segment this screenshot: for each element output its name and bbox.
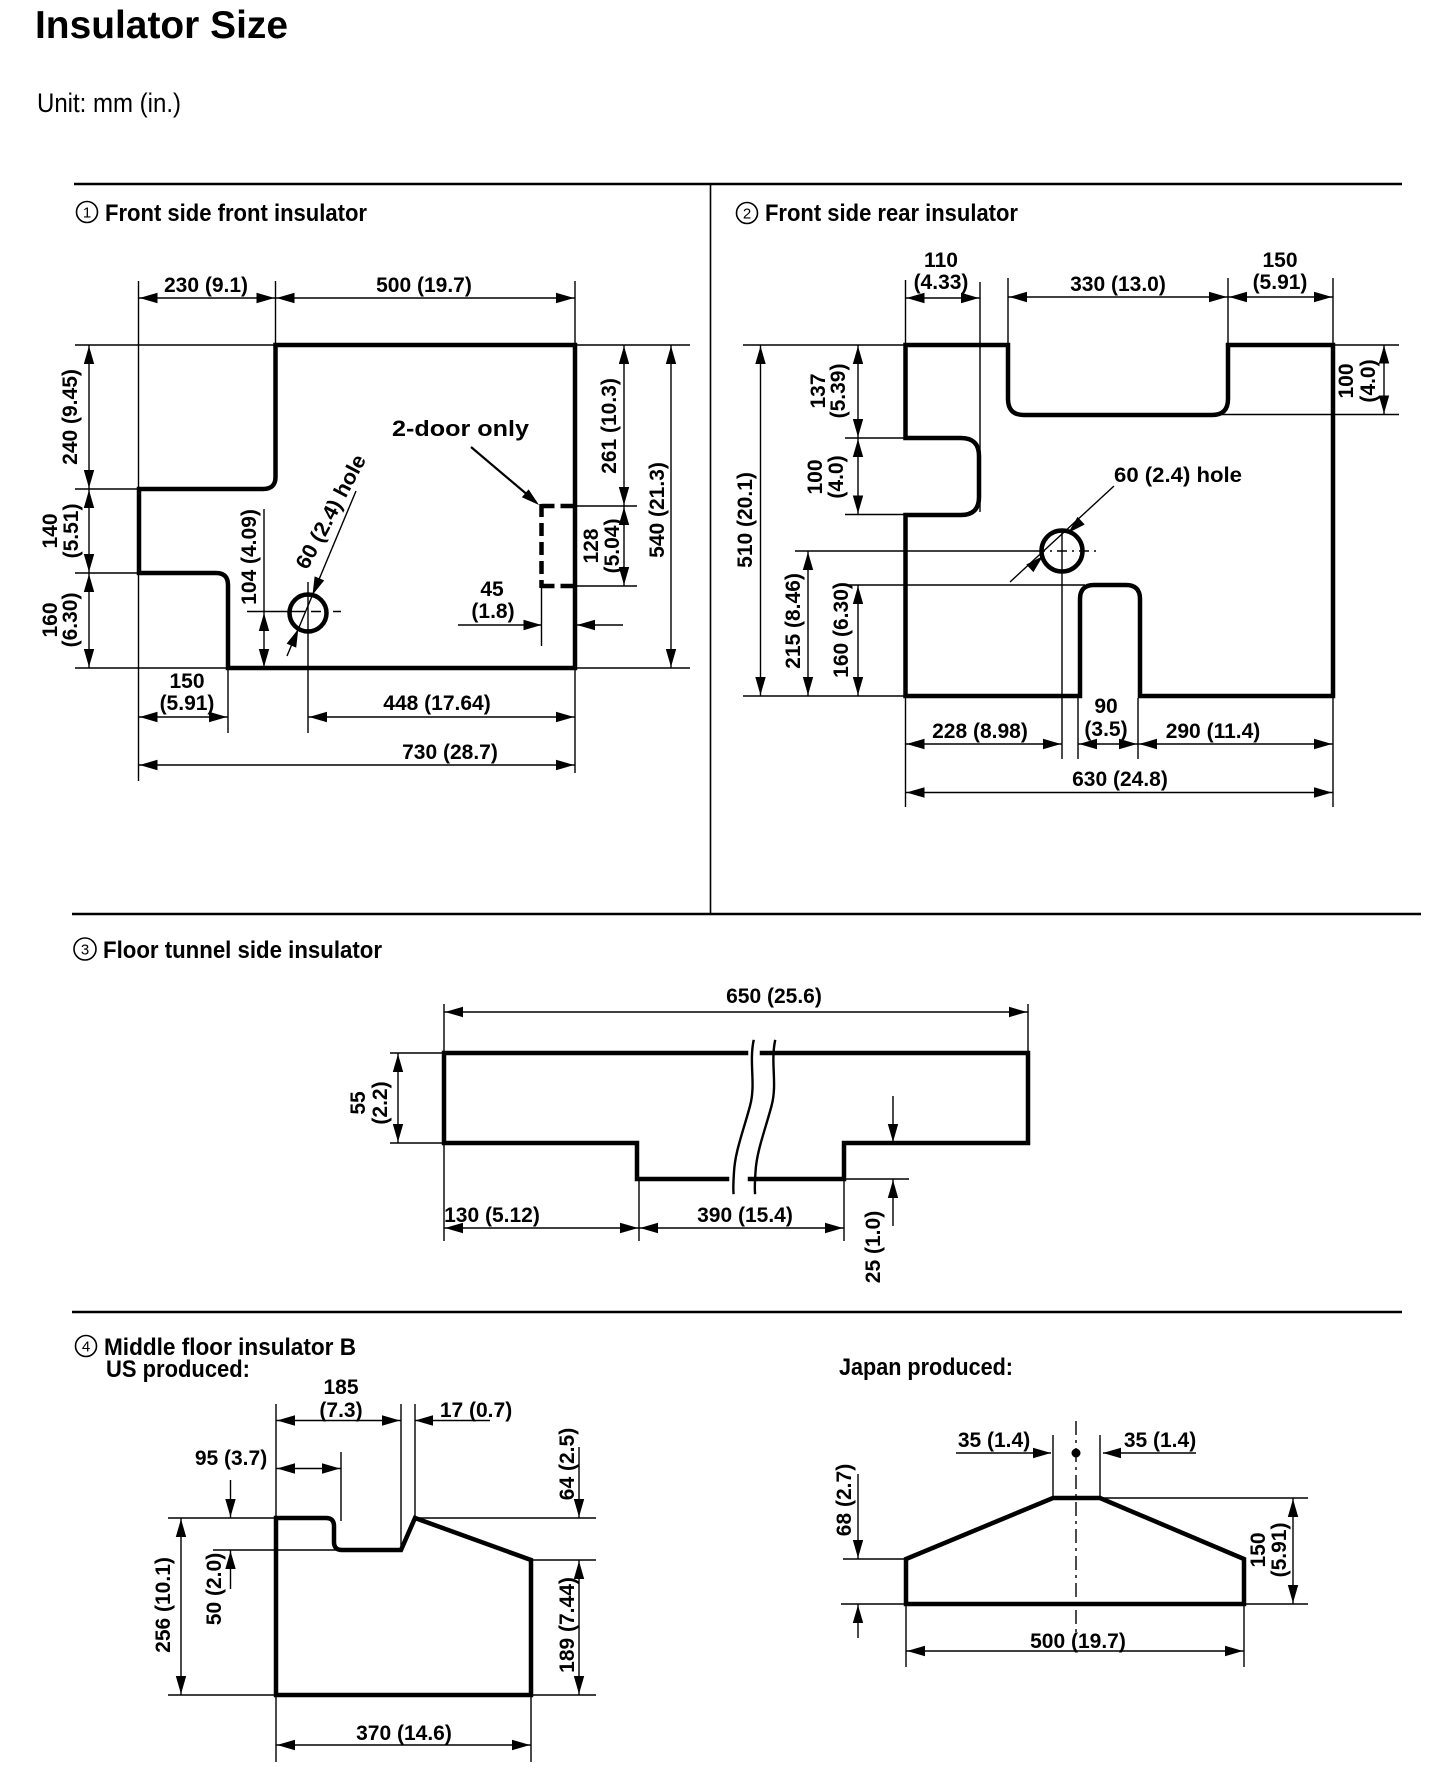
- svg-text:650 (25.6): 650 (25.6): [726, 985, 822, 1008]
- svg-text:230 (9.1): 230 (9.1): [164, 274, 248, 297]
- svg-text:(3.5): (3.5): [1084, 718, 1127, 741]
- svg-text:4: 4: [82, 1339, 90, 1356]
- svg-text:2-door only: 2-door only: [392, 416, 530, 441]
- svg-text:370 (14.6): 370 (14.6): [356, 1722, 452, 1745]
- svg-text:500 (19.7): 500 (19.7): [376, 274, 472, 297]
- svg-text:3: 3: [81, 942, 89, 959]
- svg-text:448 (17.64): 448 (17.64): [383, 692, 490, 715]
- svg-text:55: 55: [347, 1091, 370, 1115]
- svg-text:261 (10.3): 261 (10.3): [598, 378, 621, 474]
- svg-text:95 (3.7): 95 (3.7): [195, 1447, 267, 1470]
- svg-text:(7.3): (7.3): [319, 1399, 362, 1422]
- svg-text:US produced:: US produced:: [106, 1356, 250, 1383]
- svg-text:Front side front insulator: Front side front insulator: [105, 200, 367, 227]
- svg-text:150: 150: [1262, 249, 1297, 272]
- svg-text:500 (19.7): 500 (19.7): [1030, 1630, 1126, 1653]
- svg-text:240 (9.45): 240 (9.45): [59, 369, 82, 465]
- svg-text:730 (28.7): 730 (28.7): [402, 741, 498, 764]
- svg-text:(5.51): (5.51): [60, 504, 83, 559]
- svg-text:130 (5.12): 130 (5.12): [444, 1204, 540, 1227]
- svg-text:Floor tunnel side insulator: Floor tunnel side insulator: [103, 937, 382, 964]
- svg-text:90: 90: [1094, 695, 1117, 718]
- svg-text:510 (20.1): 510 (20.1): [734, 472, 757, 568]
- svg-text:(5.04): (5.04): [601, 519, 624, 574]
- svg-text:256 (10.1): 256 (10.1): [152, 1557, 175, 1653]
- svg-text:100: 100: [1335, 363, 1358, 398]
- svg-text:Unit: mm (in.): Unit: mm (in.): [37, 88, 181, 118]
- svg-text:150: 150: [169, 670, 204, 693]
- svg-text:1: 1: [83, 205, 91, 222]
- svg-text:390 (15.4): 390 (15.4): [697, 1204, 793, 1227]
- svg-text:104 (4.09): 104 (4.09): [238, 509, 261, 605]
- svg-text:(6.30): (6.30): [59, 593, 82, 648]
- svg-text:215 (8.46): 215 (8.46): [782, 573, 805, 669]
- svg-text:35 (1.4): 35 (1.4): [958, 1429, 1030, 1452]
- svg-text:160 (6.30): 160 (6.30): [830, 582, 853, 678]
- svg-text:110: 110: [924, 249, 958, 272]
- svg-text:100: 100: [804, 459, 827, 494]
- svg-text:(4.33): (4.33): [914, 271, 969, 294]
- svg-text:128: 128: [580, 528, 603, 563]
- svg-text:64 (2.5): 64 (2.5): [556, 1428, 579, 1500]
- svg-text:290 (11.4): 290 (11.4): [1166, 720, 1261, 743]
- svg-text:(5.91): (5.91): [160, 692, 215, 715]
- svg-text:(4.0): (4.0): [1357, 359, 1380, 402]
- svg-text:(5.91): (5.91): [1253, 271, 1308, 294]
- svg-text:150: 150: [1247, 1532, 1270, 1567]
- svg-text:540 (21.3): 540 (21.3): [646, 462, 669, 558]
- svg-text:(2.2): (2.2): [369, 1081, 392, 1124]
- svg-text:25 (1.0): 25 (1.0): [862, 1211, 885, 1283]
- svg-text:189 (7.44): 189 (7.44): [556, 1577, 579, 1673]
- svg-text:Insulator Size: Insulator Size: [35, 4, 288, 47]
- svg-text:2: 2: [743, 206, 751, 223]
- svg-text:140: 140: [39, 513, 62, 548]
- svg-text:(4.0): (4.0): [825, 455, 848, 498]
- svg-text:(5.91): (5.91): [1268, 1523, 1291, 1578]
- svg-text:630 (24.8): 630 (24.8): [1072, 768, 1168, 791]
- svg-text:45: 45: [480, 578, 504, 601]
- svg-text:330 (13.0): 330 (13.0): [1070, 273, 1166, 296]
- svg-text:(5.39): (5.39): [827, 364, 850, 419]
- svg-text:(1.8): (1.8): [471, 600, 514, 623]
- svg-text:35 (1.4): 35 (1.4): [1124, 1429, 1196, 1452]
- svg-text:60 (2.4) hole: 60 (2.4) hole: [1114, 464, 1242, 487]
- svg-text:228 (8.98): 228 (8.98): [932, 720, 1028, 743]
- svg-text:50 (2.0): 50 (2.0): [203, 1553, 226, 1625]
- svg-text:Front side rear insulator: Front side rear insulator: [765, 200, 1018, 227]
- svg-text:Japan produced:: Japan produced:: [839, 1354, 1013, 1381]
- svg-text:68 (2.7): 68 (2.7): [833, 1464, 856, 1536]
- svg-text:60 (2.4) hole: 60 (2.4) hole: [292, 451, 371, 573]
- svg-text:185: 185: [323, 1376, 358, 1399]
- svg-text:17 (0.7): 17 (0.7): [440, 1399, 512, 1422]
